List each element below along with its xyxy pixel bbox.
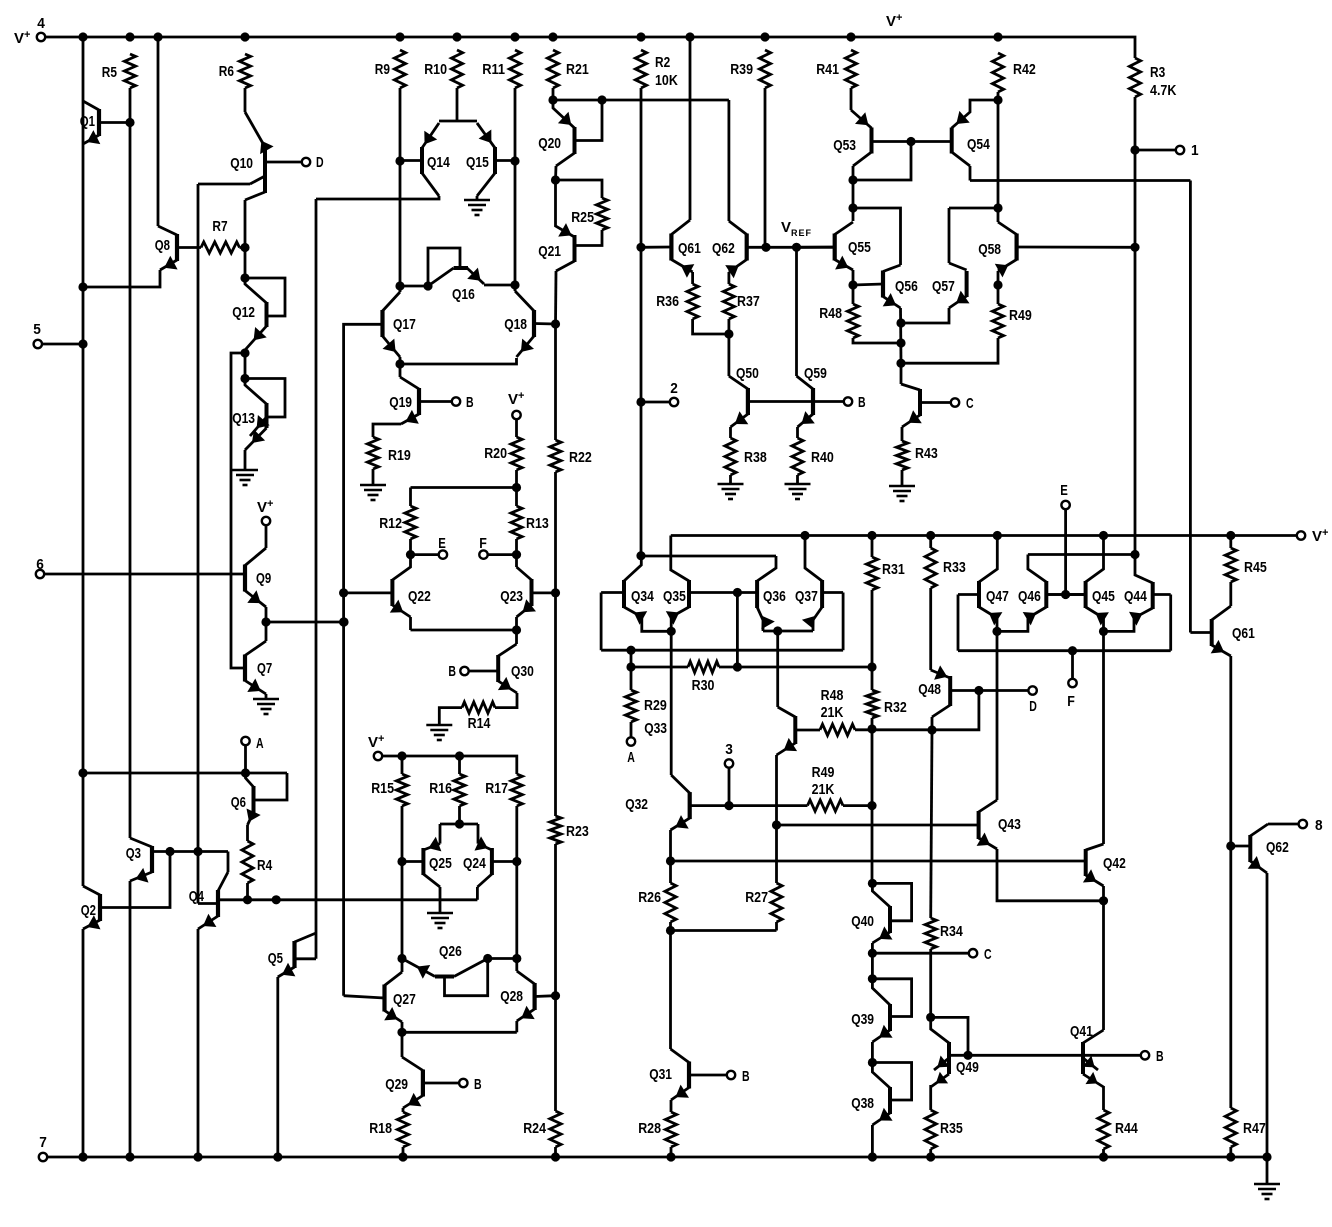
wire V+ mid rail <box>671 534 1297 537</box>
svg-text:R27: R27 <box>745 889 768 906</box>
svg-text:Q37: Q37 <box>795 588 818 605</box>
svg-text:R43: R43 <box>915 445 938 462</box>
node rail Q47 <box>993 531 1002 540</box>
svg-text:3: 3 <box>725 741 733 758</box>
wire Q15 coll <box>476 196 479 200</box>
wire R12R13 tie <box>411 486 517 489</box>
resistor R19 <box>367 437 378 469</box>
node Q18 coll node <box>510 280 519 289</box>
svg-text:Q27: Q27 <box>393 991 416 1008</box>
svg-text:Q29: Q29 <box>385 1076 408 1093</box>
wire Q8 base <box>177 246 201 249</box>
node terminal B Q30 <box>460 667 468 675</box>
node R21 node <box>548 95 557 104</box>
transistor Q2 <box>83 886 101 929</box>
svg-text:5: 5 <box>33 321 41 338</box>
wire Q22Q23 emit tie <box>411 629 517 632</box>
wire Q17Q18 emitters <box>400 358 517 364</box>
wire B line <box>968 1054 1141 1057</box>
svg-text:Q8: Q8 <box>155 237 170 254</box>
svg-text:B: B <box>466 394 474 411</box>
wire Q43 base line <box>777 824 979 827</box>
wire gnd stub <box>1266 1157 1269 1184</box>
svg-text:Q61: Q61 <box>1232 625 1255 642</box>
svg-text:D: D <box>316 154 324 171</box>
transistor Q55 <box>797 222 854 270</box>
svg-text:B: B <box>448 663 456 680</box>
transistor Q36 <box>737 556 776 629</box>
svg-text:R45: R45 <box>1244 559 1267 576</box>
wire R5 bus <box>129 88 132 838</box>
svg-text:Q2: Q2 <box>81 902 96 919</box>
resistor R33 <box>925 548 936 588</box>
transistor Q59 <box>797 376 815 427</box>
node terminal B mid <box>844 397 852 405</box>
svg-text:10K: 10K <box>655 72 678 89</box>
ground Q7 <box>253 699 279 714</box>
svg-text:E: E <box>1060 482 1068 499</box>
node rail2 x130 <box>125 1152 134 1161</box>
transistor Q25 <box>402 837 441 887</box>
transistor Q61b <box>1190 606 1230 656</box>
svg-text:R36: R36 <box>656 293 679 310</box>
wire Q27 emit <box>401 1022 404 1032</box>
svg-text:Q39: Q39 <box>851 1011 874 1028</box>
transistor Q29 <box>402 1057 459 1108</box>
node terminal D right <box>1028 686 1036 694</box>
svg-text:4: 4 <box>37 15 45 32</box>
svg-text:R18: R18 <box>369 1120 392 1137</box>
node pin5 node <box>78 339 87 348</box>
svg-text:Q20: Q20 <box>538 135 561 152</box>
node rail Q45 <box>1099 531 1108 540</box>
wire Q34 base loop <box>600 593 603 651</box>
transistor Q43 <box>977 800 997 849</box>
node R26R27 node <box>666 926 675 935</box>
wire Q6 base loop <box>254 773 288 800</box>
node Q33 emit node <box>772 820 781 829</box>
wire Q25 tee arm <box>439 824 442 844</box>
wire Q57 coll riser <box>948 208 951 263</box>
node rail x851 <box>846 32 855 41</box>
node R20 node <box>512 483 521 492</box>
wire Q18 coll stub <box>514 285 517 291</box>
node terminal V+ R15 <box>374 752 382 760</box>
svg-text:Q49: Q49 <box>956 1059 979 1076</box>
wire pin1 <box>1135 149 1176 152</box>
wire V+ top rail <box>46 37 1136 58</box>
wire Q20 base riser <box>575 100 603 141</box>
wire R48b to R32 <box>855 728 872 731</box>
wire R18 rail lead <box>402 1147 405 1157</box>
node coll tie node <box>636 551 645 560</box>
wire Q29 coll <box>401 1032 404 1057</box>
wire coll tie line <box>641 555 776 558</box>
resistor R10 <box>451 50 462 88</box>
node rail2 x555.5 <box>551 1152 560 1161</box>
wire R48 lead <box>852 285 855 304</box>
wire mirror bus <box>315 199 318 959</box>
svg-text:Q5: Q5 <box>268 950 283 967</box>
transistor Q37 <box>802 536 843 630</box>
svg-text:R21: R21 <box>566 61 589 78</box>
wire Q8 coll bus <box>157 37 160 226</box>
transistor Q20 <box>553 100 575 166</box>
node Q21 node <box>551 175 560 184</box>
resistor R15 <box>396 774 407 806</box>
transistor Q14 <box>400 123 439 196</box>
wire Q27Q28 emit tie <box>402 1031 517 1034</box>
wire R4 to base line <box>246 883 249 900</box>
wire comp line drop <box>1189 181 1192 633</box>
wire Q42 emit lead <box>1102 886 1105 901</box>
wire R25 loop top <box>556 180 603 198</box>
wire R49 bottom <box>901 338 998 363</box>
svg-text:R7: R7 <box>212 218 227 235</box>
node Q22 base node <box>339 588 348 597</box>
resistor R49b <box>808 800 844 811</box>
svg-text:Q42: Q42 <box>1103 855 1126 872</box>
node terminal C right <box>969 949 977 957</box>
node Q13 coll node <box>240 374 249 383</box>
wire R28 rail lead <box>670 1147 673 1157</box>
node terminal 8 <box>1299 820 1307 828</box>
svg-text:Q57: Q57 <box>932 278 955 295</box>
transistor Q60 <box>901 384 951 427</box>
resistor R31 <box>866 557 877 590</box>
wire R43 gnd lead <box>901 470 904 486</box>
svg-text:R32: R32 <box>884 699 907 716</box>
node terminal B right <box>1141 1051 1149 1059</box>
node terminal V+ Q9 <box>262 517 270 525</box>
node R36R37 node <box>724 329 733 338</box>
transistor Q7 <box>245 641 266 694</box>
svg-text:Q30: Q30 <box>511 663 534 680</box>
node Q34Q35 emit node <box>667 627 676 636</box>
transistor Q62b <box>1248 824 1268 873</box>
wire R30 line right <box>719 666 872 669</box>
node rail x400 <box>395 32 404 41</box>
wire Q46 emit lead <box>997 618 1028 631</box>
resistor R39 <box>759 50 770 88</box>
wire R26 lead <box>669 861 672 883</box>
wire Q22 emit lead <box>409 617 412 630</box>
wire Q24 coll <box>476 887 479 900</box>
wire Q33 emit bus <box>775 755 778 825</box>
node terminal B Q19 <box>452 397 460 405</box>
wire Q60 coll <box>900 363 903 384</box>
wire R42 lead <box>997 92 1000 100</box>
resistor R37 <box>723 284 734 319</box>
svg-text:Q50: Q50 <box>736 365 759 382</box>
svg-text:Q10: Q10 <box>230 155 253 172</box>
wire R9 bus <box>399 88 402 286</box>
node Q16 loop node <box>423 281 432 290</box>
wire Q47 base loop <box>957 595 960 651</box>
svg-text:R10: R10 <box>424 61 447 78</box>
svg-text:Q28: Q28 <box>500 988 523 1005</box>
node E tap node <box>1061 590 1070 599</box>
transistor Q30 <box>469 644 518 693</box>
svg-text:Q45: Q45 <box>1092 588 1115 605</box>
resistor R11 <box>509 50 520 88</box>
svg-text:B: B <box>742 1068 750 1085</box>
transistor Q9 <box>245 548 266 607</box>
resistor R9 <box>394 50 405 88</box>
ground R40 <box>785 484 811 499</box>
wire Q61b emit bus <box>1229 656 1232 846</box>
svg-text:R2: R2 <box>655 54 670 71</box>
wire R7node to Q12 <box>244 248 247 279</box>
node rail x641 <box>636 32 645 41</box>
wire Q41 emit <box>1102 1086 1105 1110</box>
wire Q26 coll tie <box>488 957 517 960</box>
node Q56 coll node <box>848 203 857 212</box>
transistor Q41 <box>1082 1030 1103 1087</box>
resistor R26 <box>665 883 676 922</box>
wire Q32 base <box>690 804 808 807</box>
svg-text:E: E <box>438 535 446 552</box>
wire Q17 emit stub <box>399 357 402 364</box>
wire R26R27 tie <box>671 929 777 932</box>
wire Q43 coll bus <box>996 631 999 800</box>
transistor Q35 <box>666 536 738 625</box>
wire Q28 emit lead <box>515 1021 518 1032</box>
wire Q34 emit lead <box>642 617 671 631</box>
wire Q25Q24 tee bar <box>440 823 478 826</box>
wire D riser <box>932 691 979 730</box>
transistor Q15 <box>477 123 515 196</box>
svg-text:Q22: Q22 <box>408 588 431 605</box>
wire R32 top lead <box>871 667 874 690</box>
resistor R17 <box>511 774 522 806</box>
transistor Q38 <box>872 1063 911 1126</box>
svg-text:Q38: Q38 <box>851 1095 874 1112</box>
wire R41 lead <box>850 88 853 110</box>
svg-text:R39: R39 <box>730 61 753 78</box>
ground Q25 <box>427 913 453 928</box>
wire R12 top <box>409 488 412 507</box>
svg-text:Q47: Q47 <box>986 588 1009 605</box>
transistor Q16 <box>428 248 484 286</box>
node rail2 x83 <box>78 1152 87 1161</box>
wire pin2 <box>645 401 670 404</box>
resistor R3 <box>1129 58 1140 97</box>
wire Q37 base loop <box>842 593 845 651</box>
svg-text:R16: R16 <box>429 780 452 797</box>
wire pin3 stem <box>728 768 731 806</box>
node rail2 x403 <box>398 1152 407 1161</box>
node rail Q37 <box>800 531 809 540</box>
transistor Q21 <box>556 180 575 271</box>
transistor Q22 <box>390 555 411 617</box>
wire Q55 emit lead <box>852 270 855 285</box>
node terminal E right <box>1061 501 1069 509</box>
wire R36 lead <box>691 272 694 284</box>
svg-text:Q43: Q43 <box>998 816 1021 833</box>
svg-text:Q32: Q32 <box>625 796 648 813</box>
node terminal 7 <box>39 1153 47 1161</box>
wire Q32 coll bus <box>670 631 673 775</box>
svg-text:R48: R48 <box>821 687 844 704</box>
node rail2 x1267 <box>1262 1152 1271 1161</box>
wire Q45 emit lead <box>1102 618 1105 631</box>
node F tap node <box>1068 646 1077 655</box>
node Q46 coll node <box>1130 550 1139 559</box>
svg-text:Q18: Q18 <box>504 316 527 333</box>
node R30 node <box>626 662 635 671</box>
svg-text:Q41: Q41 <box>1070 1023 1093 1040</box>
node terminal E mid <box>439 550 447 558</box>
wire R26 bottom <box>669 922 672 931</box>
wire R2 bus <box>640 88 643 556</box>
svg-text:R38: R38 <box>744 449 767 466</box>
node terminal 2 <box>670 398 678 406</box>
svg-text:B: B <box>858 394 866 411</box>
resistor R40 <box>792 438 803 475</box>
wire Q49 emit <box>929 1085 932 1110</box>
wire Q14 coll <box>316 196 439 199</box>
svg-text:R30: R30 <box>692 677 715 694</box>
wire R22 top lead <box>554 324 557 440</box>
transistor Q31 <box>671 1049 728 1100</box>
wire R33 bus <box>929 588 932 670</box>
wire Q57 coll line <box>949 207 998 210</box>
transistor Q57x <box>949 263 970 308</box>
transistor Q5 <box>278 933 316 977</box>
wire Q21 coll <box>554 271 557 324</box>
svg-text:Q6: Q6 <box>231 794 246 811</box>
wire R15 lead <box>401 756 404 774</box>
transistor Q58 <box>995 222 1135 277</box>
wire E base tie <box>1046 593 1085 596</box>
wire Q42 coll bus <box>1102 631 1105 844</box>
wire Q10 base bus <box>197 184 200 904</box>
wire R31 bottom <box>871 590 874 667</box>
wire R34 bottom <box>929 949 932 1017</box>
wire R42 bus <box>997 100 1000 222</box>
node B line node <box>963 1051 972 1060</box>
transistor Q4 <box>198 872 228 929</box>
node rail x998 <box>993 32 1002 41</box>
ground Q15 <box>464 200 490 215</box>
node A-line node <box>78 768 87 777</box>
wire Q3 base <box>152 850 228 853</box>
node rail x690 <box>685 32 694 41</box>
svg-text:R19: R19 <box>388 447 411 464</box>
node Q27Q28 emit node <box>397 1028 406 1037</box>
resistor R28 <box>665 1112 676 1147</box>
resistor R43 <box>896 441 907 470</box>
node Q62b base node <box>1226 841 1235 850</box>
wire R38 lead <box>729 427 732 438</box>
svg-text:2: 2 <box>670 380 678 397</box>
node Q45Q44 emit node <box>1099 627 1108 636</box>
wire R49 lead <box>997 285 1000 304</box>
svg-text:Q14: Q14 <box>427 154 450 171</box>
svg-text:Q54: Q54 <box>967 136 990 153</box>
node R13 node <box>512 550 521 559</box>
wire Q20 coll <box>554 166 557 180</box>
node bus node <box>339 617 348 626</box>
wire Q54 coll <box>969 166 972 181</box>
wire Q38 emit <box>871 1125 874 1157</box>
transistor Q54 <box>952 100 998 166</box>
wire Q16 emitter <box>484 284 515 287</box>
svg-text:Q58: Q58 <box>978 241 1001 258</box>
svg-text:R17: R17 <box>485 780 508 797</box>
wire R36 bottom <box>693 319 729 334</box>
node R49b node <box>867 801 876 810</box>
node Q53 loop node <box>848 175 857 184</box>
transistor Q13 <box>245 379 285 451</box>
transistor Q53 <box>851 110 872 166</box>
svg-text:R49: R49 <box>812 764 835 781</box>
svg-text:R15: R15 <box>371 780 394 797</box>
wire R37 bottom <box>728 319 731 334</box>
wire R47 bus <box>1229 846 1232 1108</box>
node Q28 base node <box>551 991 560 1000</box>
wire R18 lead <box>402 1108 405 1112</box>
resistor R42 <box>992 53 1003 92</box>
wire Q23 emit lead <box>515 617 518 630</box>
svg-text:Q46: Q46 <box>1018 588 1041 605</box>
node Q57 emit node <box>896 318 905 327</box>
svg-text:R5: R5 <box>102 64 117 81</box>
wire Q43 emit <box>997 849 1100 901</box>
resistor R41 <box>845 50 856 88</box>
transistor Q33 <box>777 707 821 755</box>
node pin3 node <box>724 801 733 810</box>
wire Q36Q37 emit tie <box>763 630 813 633</box>
node Q5 bus node <box>272 895 281 904</box>
transistor Q27 <box>344 972 402 1022</box>
wire R32 bottom <box>871 718 874 729</box>
resistor R23 <box>550 816 561 844</box>
resistor R48 <box>847 304 858 338</box>
wire F stem <box>1071 651 1074 679</box>
resistor R45 <box>1225 548 1236 582</box>
node rail2 x1230.8 <box>1226 1152 1235 1161</box>
svg-text:R28: R28 <box>638 1120 661 1137</box>
node Q49 coll node <box>926 1013 935 1022</box>
svg-text:4.7K: 4.7K <box>1150 82 1177 99</box>
transistor Q42 <box>1083 844 1104 886</box>
transistor Q18 <box>515 291 556 357</box>
resistor R7 <box>201 242 240 253</box>
wire R24 rail lead <box>554 1147 557 1157</box>
wire R12 bottom <box>409 539 412 555</box>
wire Q32 emit bus <box>669 830 672 861</box>
node Q26 loop node <box>512 954 521 963</box>
wire base tap <box>736 593 739 668</box>
node rail R31 <box>867 531 876 540</box>
node D riser node <box>974 686 983 695</box>
wire Q9 to Q22base line <box>266 621 344 624</box>
node R29 tap node <box>626 646 635 655</box>
wire Q8 emitter <box>83 270 160 287</box>
node rail x158 <box>153 32 162 41</box>
wire R43 lead <box>901 427 904 441</box>
wire R16 lead <box>458 756 461 774</box>
node terminal F right <box>1068 679 1076 687</box>
svg-text:Q40: Q40 <box>851 913 874 930</box>
resistor R30 <box>688 661 719 672</box>
svg-text:Q62: Q62 <box>1266 839 1289 856</box>
wire Q53 diode loop <box>853 142 911 181</box>
node rail x765 <box>760 32 769 41</box>
wire Q42 base line <box>671 860 1086 863</box>
